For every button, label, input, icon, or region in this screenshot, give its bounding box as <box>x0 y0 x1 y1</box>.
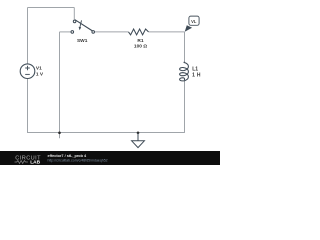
junction dot ground <box>137 132 140 135</box>
wire: switch right terminal to resistor <box>95 31 129 33</box>
node flag VL pointer <box>185 25 192 32</box>
wire: switch upper terminal drop <box>73 8 75 21</box>
switch SW1 arrow <box>80 20 82 27</box>
inductor L1 <box>180 62 189 81</box>
node flag VL box <box>189 16 199 25</box>
switch SW1 left terminal <box>71 31 74 34</box>
wire: right vertical above inductor <box>184 32 186 62</box>
wire: switch left terminal to mid drop <box>60 31 72 33</box>
wire: mid vertical drop <box>59 32 61 138</box>
ground stem <box>137 133 139 141</box>
switch SW1 upper terminal <box>73 20 76 23</box>
wire: resistor to top-right corner <box>149 31 185 33</box>
resistor R1 <box>129 29 149 35</box>
junction dot mid-bottom <box>58 132 61 135</box>
svg-text:effector7 / stL_prob 4: effector7 / stL_prob 4 <box>48 154 87 158</box>
switch SW1 right terminal <box>92 31 95 34</box>
wire: V1 bottom lead to bottom rail <box>27 79 29 134</box>
wire: top-left horizontal from V1 top to switch drop <box>28 7 75 9</box>
svg-text:LAB: LAB <box>30 160 40 165</box>
svg-text:http://circuitlab.com/c/48fd5/: http://circuitlab.com/c/48fd5/mdaeqh52 <box>48 158 108 162</box>
wire: bottom rail <box>28 132 185 134</box>
switch SW1 lever <box>75 20 93 31</box>
wire: right vertical below inductor <box>184 80 186 133</box>
wire: left vertical V1 top lead <box>27 8 29 64</box>
logo resistor glyph <box>15 161 28 164</box>
footer bar <box>0 151 220 165</box>
ground triangle <box>132 141 145 148</box>
voltage source V1 <box>20 64 35 79</box>
